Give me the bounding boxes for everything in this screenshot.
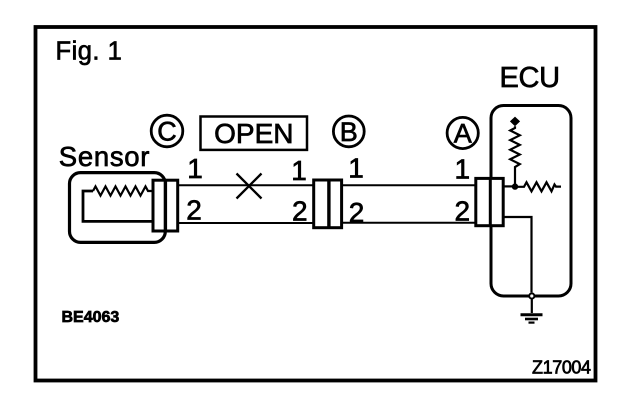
svg-text:OPEN: OPEN [214,118,293,149]
sensor internal return wire [83,191,152,221]
wire connector B pin2 to connector A [343,222,476,224]
wire sensor pin1 to connector B [179,184,313,186]
svg-text:1: 1 [291,155,307,186]
svg-text:Sensor: Sensor [59,141,150,172]
sensor body box [70,173,166,243]
wire connector A pin2 to ground node [503,217,531,292]
svg-text:1: 1 [348,152,364,183]
ground symbol [521,299,543,323]
ground node circle [529,293,534,298]
svg-text:ECU: ECU [500,62,560,94]
connector circle A [447,117,478,148]
connector C body [153,180,178,231]
connector circle C [151,115,183,147]
open circuit X mark [237,174,262,199]
svg-text:Z17004: Z17004 [532,358,591,378]
wire connector B pin1 to connector A [343,184,476,186]
sensor internal resistor element [93,186,152,195]
svg-text:C: C [157,117,177,147]
ECU pullup resistor vertical [510,126,520,184]
connector B body [314,180,342,228]
svg-text:2: 2 [349,197,365,228]
svg-text:Fig. 1: Fig. 1 [56,38,123,66]
svg-text:2: 2 [455,195,471,226]
ECU pullup supply diamond [510,117,520,127]
ECU series resistor horizontal [518,182,561,191]
connector circle B [333,116,364,147]
wire sensor pin2 to connector B [179,222,313,224]
OPEN fault label box [201,117,308,150]
svg-text:B: B [340,117,358,147]
svg-text:2: 2 [292,195,308,226]
svg-text:1: 1 [455,154,471,185]
junction node dot [512,183,518,189]
ECU body box [491,106,571,297]
svg-text:BE4063: BE4063 [62,309,120,326]
wire connector A pin1 to junction [503,185,515,187]
svg-text:2: 2 [186,195,202,226]
svg-text:A: A [454,119,472,149]
svg-text:1: 1 [187,153,203,184]
connector A body [476,178,503,225]
